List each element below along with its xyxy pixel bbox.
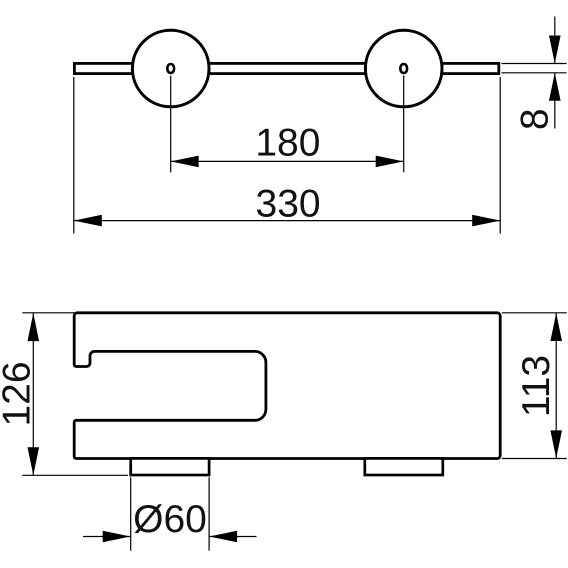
extension line bar right end <box>499 77 501 234</box>
arrowhead 180 right <box>376 156 404 168</box>
svg-text:Ø60: Ø60 <box>133 498 207 541</box>
extension line from right circle center <box>403 76 405 173</box>
svg-text:8: 8 <box>513 108 556 130</box>
arrowhead 126 top <box>28 313 40 341</box>
arrowhead 113 bottom <box>550 430 562 458</box>
dimension line 180 <box>171 160 404 162</box>
svg-text:126: 126 <box>0 361 38 426</box>
svg-text:330: 330 <box>256 183 321 226</box>
arrowhead 113 top <box>550 313 562 341</box>
extension line bar bottom edge (8 dim) <box>502 72 567 74</box>
arrowhead 8 upper <box>549 36 561 64</box>
extension line 113 top <box>502 312 567 314</box>
top view: right rosette circle <box>365 30 442 107</box>
top view: wall bar <box>74 63 498 73</box>
right screw slot <box>400 64 407 73</box>
arrowhead 126 bottom <box>28 447 40 475</box>
svg-text:180: 180 <box>255 121 320 164</box>
dimension line 113 <box>555 313 557 458</box>
arrowhead 330 right <box>472 215 500 227</box>
arrowhead Ø60 left <box>103 531 131 543</box>
dimension line Ø60 right <box>209 536 256 538</box>
dimension line 8 lower <box>554 73 556 129</box>
dimension line Ø60 left <box>83 536 131 538</box>
extension line 113 bottom <box>502 458 567 460</box>
side view: bracket body with shelf slot <box>74 313 500 459</box>
arrowhead 330 left <box>74 215 102 227</box>
top view: left rosette circle <box>132 30 209 107</box>
arrowhead 8 lower <box>549 73 561 101</box>
left screw slot <box>167 64 174 73</box>
right wall foot <box>365 458 443 475</box>
svg-text:113: 113 <box>515 355 558 417</box>
dimension line 126 <box>32 313 34 475</box>
extension line from left circle center <box>170 76 172 173</box>
dimension line 330 <box>74 220 500 222</box>
extension line foot right (Ø60) <box>208 477 210 550</box>
extension line foot left (Ø60) <box>130 477 132 550</box>
arrowhead 180 left <box>171 156 199 168</box>
arrowhead Ø60 right <box>209 531 237 543</box>
extension line bar top edge (8 dim) <box>502 63 567 65</box>
left wall foot <box>131 458 209 475</box>
dimension line 8 upper <box>554 17 556 64</box>
extension line bar left end <box>73 77 75 234</box>
extension line 126 top <box>22 312 74 314</box>
extension line 126 bottom <box>22 474 128 476</box>
